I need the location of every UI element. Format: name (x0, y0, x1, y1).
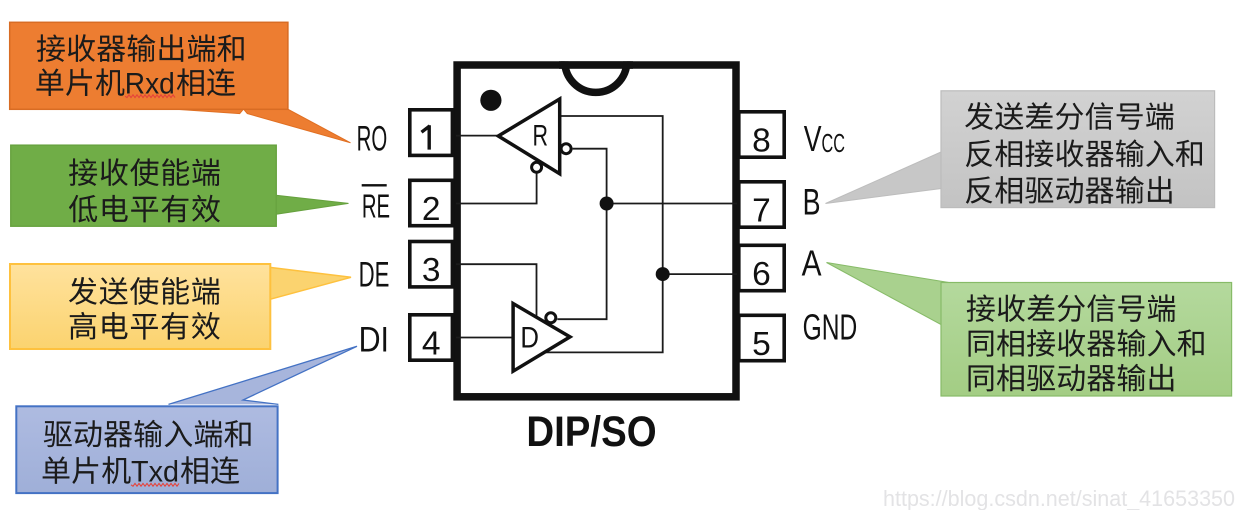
callout: A annotation (light green) box (941, 283, 1232, 397)
svg-text:7: 7 (752, 193, 771, 230)
svg-text:DE: DE (359, 256, 390, 295)
pin 4 box (410, 315, 453, 360)
receiver enable bubble (RE) (532, 162, 542, 172)
pin-1 indicator dot (480, 90, 501, 111)
wire: RE (pin2) to receiver enable bubble (456, 174, 537, 204)
svg-text:D: D (520, 322, 539, 355)
IC package body (MAX485 outline) (457, 65, 736, 397)
callout: DI annotation (blue) tail (169, 346, 358, 404)
svg-text:6: 6 (752, 256, 771, 293)
pin 8 box (739, 112, 784, 157)
pin-1 orientation notch (top semicircle) (565, 61, 627, 92)
svg-text:DIP/SO: DIP/SO (526, 409, 656, 456)
wire: DI (pin4) to driver input (456, 337, 513, 339)
pin 5 box (739, 315, 784, 360)
callout: B annotation (gray) tail (826, 152, 942, 204)
spellcheck squiggle under Txd (131, 483, 179, 486)
callout: A annotation (light green) tail (827, 263, 949, 325)
callout: RO annotation (orange) tail (172, 109, 351, 143)
svg-text:3: 3 (422, 252, 441, 289)
svg-text:V: V (804, 118, 822, 159)
svg-text:2: 2 (422, 191, 441, 228)
svg-text:RE: RE (362, 187, 390, 224)
receiver amplifier R (points left) (498, 99, 559, 174)
svg-text:8: 8 (752, 123, 771, 160)
driver inverting-output bubble (to B) (546, 313, 556, 323)
pin 7 box (739, 182, 784, 227)
svg-text:R: R (533, 119, 549, 152)
svg-text:CC: CC (822, 128, 845, 158)
wire: RO (pin1) to receiver output (456, 135, 499, 137)
callout: DE annotation (yellow) tail (270, 267, 351, 299)
callout: RE annotation (green) tail (276, 195, 349, 214)
svg-text:https://blog.csdn.net/sinat_41: https://blog.csdn.net/sinat_41653350 (883, 486, 1235, 510)
callout: B annotation (gray) box (941, 91, 1215, 208)
junction node on A net (656, 267, 670, 281)
callout: RE annotation (green) box (11, 145, 276, 226)
wire: A net (receiver + input, driver output, pin6) (545, 116, 663, 352)
svg-text:B: B (803, 181, 821, 222)
receiver inverting input bubble (B) (561, 144, 571, 154)
callout: RO annotation (orange) box (10, 22, 288, 109)
svg-text:A: A (802, 243, 822, 284)
svg-text:GND: GND (803, 306, 858, 347)
wire: DE (pin3) to driver enable (456, 264, 537, 316)
wire: B net (receiver - input bubble, driver inverting output bubble, pin7) (557, 149, 606, 320)
pin 3 box (410, 242, 453, 287)
svg-text:5: 5 (752, 326, 771, 363)
pin 6 box (739, 245, 784, 290)
spellcheck squiggle under Rxd (125, 95, 175, 98)
pin 2 box (410, 180, 453, 225)
callout: DE annotation (yellow) box (10, 264, 270, 349)
junction node on B net (600, 197, 614, 211)
svg-text:RO: RO (357, 119, 388, 158)
svg-text:DI: DI (359, 320, 389, 359)
driver amplifier D (points right) (513, 304, 570, 372)
pin 1 box (410, 110, 453, 156)
callout: DI annotation (blue) box (16, 406, 277, 493)
svg-text:4: 4 (422, 326, 441, 363)
